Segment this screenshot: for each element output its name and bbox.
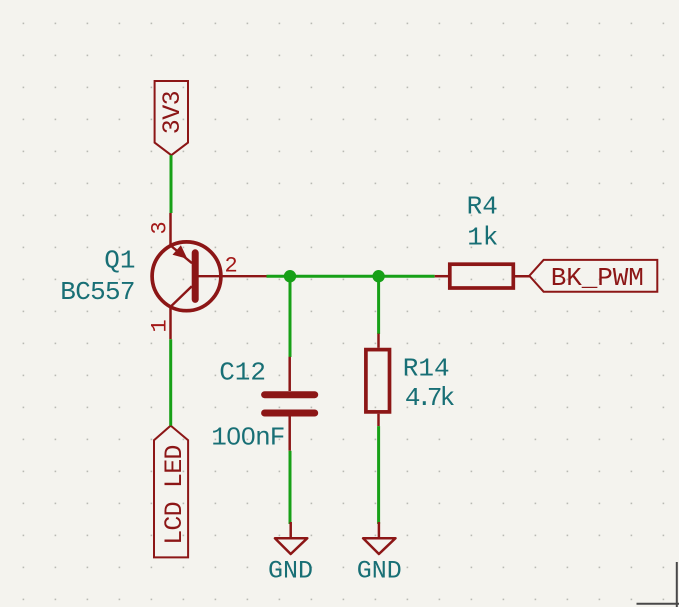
ground GND (left) [268, 522, 313, 585]
svg-text:GND: GND [268, 556, 313, 585]
svg-text:BC557: BC557 [60, 277, 135, 307]
wire junction A down to C12 [289, 276, 292, 357]
wire Q1 pin1 to LCD LED [169, 339, 172, 425]
gnd triangle [363, 538, 395, 554]
resistor R14 [366, 334, 455, 427]
svg-text:C12: C12 [219, 357, 266, 387]
svg-text:Q1: Q1 [104, 246, 135, 276]
pin top [377, 334, 380, 348]
svg-text:4.7k: 4.7k [405, 383, 455, 413]
pin 1 [169, 306, 172, 339]
junction node A [284, 270, 296, 282]
bottom plate [265, 410, 315, 417]
svg-text:BK_PWM: BK_PWM [551, 263, 644, 293]
svg-text:3: 3 [147, 221, 172, 234]
global label LCD LED [154, 426, 189, 558]
pin bottom [377, 414, 380, 426]
wire Q1 base to R4 [267, 275, 435, 278]
body circle [152, 242, 221, 311]
svg-text:2: 2 [225, 254, 238, 279]
gnd stub [378, 522, 381, 538]
wire R14 to GND [377, 426, 380, 524]
wire C12 to GND [289, 451, 292, 524]
base bar [192, 253, 199, 300]
resistor R4 [435, 191, 531, 288]
transistor Q1 [60, 213, 266, 339]
svg-text:LCD LED: LCD LED [160, 445, 189, 544]
pin 3 [169, 213, 172, 247]
svg-text:1: 1 [147, 319, 172, 332]
svg-text:R4: R4 [467, 191, 498, 221]
collector line [171, 286, 192, 306]
emitter arrow [173, 245, 188, 259]
svg-text:1k: 1k [467, 222, 498, 252]
gnd triangle [275, 538, 307, 554]
pin bottom [288, 416, 291, 450]
ground GND (right) [357, 522, 402, 585]
svg-text:R14: R14 [403, 353, 450, 383]
global label BK_PWM [529, 260, 657, 293]
pin top [288, 357, 291, 391]
pin right [513, 275, 530, 278]
top plate [265, 391, 315, 398]
base pin (pin 2) [197, 275, 267, 277]
junction node B [372, 270, 384, 282]
wire 3V3 to Q1 pin3 [170, 155, 173, 213]
body [366, 350, 390, 412]
emitter line [171, 246, 193, 264]
gnd stub [289, 522, 292, 538]
wire junction B down to R14 [377, 276, 380, 334]
svg-text:3V3: 3V3 [158, 91, 187, 134]
capacitor C12 [211, 357, 314, 453]
svg-text:GND: GND [357, 556, 402, 585]
power flag 3V3 [155, 81, 188, 155]
pin left [435, 275, 450, 278]
body [450, 264, 514, 288]
